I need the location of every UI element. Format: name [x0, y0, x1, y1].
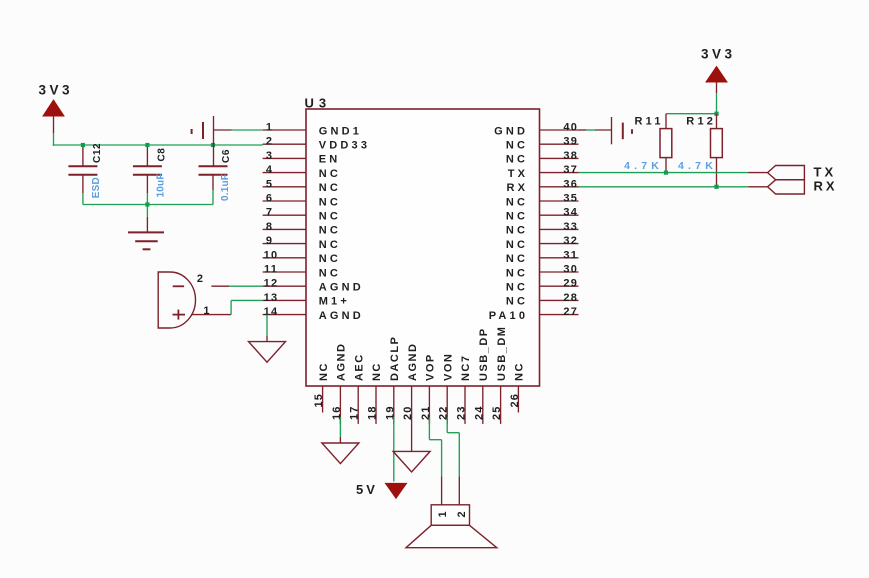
- svg-text:C6: C6: [221, 149, 232, 163]
- svg-text:24: 24: [473, 405, 485, 420]
- svg-text:1: 1: [266, 122, 273, 134]
- svg-text:6: 6: [266, 193, 273, 205]
- svg-text:USB_DM: USB_DM: [496, 326, 508, 381]
- svg-text:4: 4: [266, 164, 273, 176]
- svg-text:34: 34: [563, 207, 578, 219]
- svg-text:NC7: NC7: [460, 354, 472, 381]
- svg-text:NC: NC: [506, 140, 528, 152]
- svg-text:4.7K: 4.7K: [678, 160, 717, 172]
- svg-text:NC: NC: [506, 296, 528, 308]
- svg-text:22: 22: [438, 405, 450, 420]
- svg-text:C8: C8: [157, 148, 168, 162]
- svg-text:18: 18: [367, 405, 379, 420]
- svg-text:14: 14: [264, 306, 279, 318]
- svg-text:4.7K: 4.7K: [624, 160, 663, 172]
- svg-text:0.1uF: 0.1uF: [220, 174, 231, 201]
- svg-text:2: 2: [197, 273, 204, 285]
- svg-text:30: 30: [563, 264, 578, 276]
- svg-text:11: 11: [264, 264, 278, 276]
- svg-text:NC: NC: [319, 196, 341, 208]
- svg-text:NC: NC: [506, 154, 528, 166]
- svg-text:NC: NC: [506, 211, 528, 223]
- svg-text:M1+: M1+: [319, 296, 350, 308]
- svg-text:NC: NC: [506, 267, 528, 279]
- svg-text:28: 28: [563, 292, 578, 304]
- svg-text:PA10: PA10: [489, 310, 529, 322]
- svg-text:GND: GND: [494, 125, 528, 137]
- svg-text:3V3: 3V3: [39, 83, 74, 98]
- svg-text:TX: TX: [508, 168, 528, 180]
- svg-text:VOP: VOP: [425, 353, 437, 381]
- svg-text:23: 23: [456, 405, 468, 420]
- svg-text:19: 19: [384, 405, 396, 420]
- svg-text:25: 25: [491, 405, 503, 420]
- svg-text:DACLP: DACLP: [389, 336, 401, 381]
- svg-text:R12: R12: [686, 116, 716, 128]
- svg-text:NC: NC: [506, 196, 528, 208]
- svg-text:36: 36: [563, 178, 578, 190]
- svg-text:9: 9: [266, 235, 273, 247]
- svg-text:RX: RX: [814, 179, 838, 194]
- svg-text:10uF: 10uF: [156, 173, 167, 197]
- svg-text:NC: NC: [506, 253, 528, 265]
- svg-text:40: 40: [563, 122, 578, 134]
- svg-text:ESD: ESD: [91, 177, 102, 198]
- svg-text:NC: NC: [514, 362, 526, 381]
- svg-text:NC: NC: [319, 267, 341, 279]
- svg-text:NC: NC: [319, 225, 341, 237]
- svg-text:NC: NC: [319, 168, 341, 180]
- svg-text:32: 32: [563, 235, 578, 247]
- svg-text:39: 39: [563, 136, 578, 148]
- svg-text:RX: RX: [507, 182, 529, 194]
- svg-text:15: 15: [313, 393, 325, 408]
- svg-text:NC: NC: [371, 362, 383, 381]
- svg-text:EN: EN: [319, 154, 341, 166]
- svg-text:AEC: AEC: [353, 353, 365, 381]
- svg-text:NC: NC: [319, 182, 341, 194]
- svg-text:NC: NC: [506, 225, 528, 237]
- svg-text:1: 1: [437, 510, 449, 517]
- svg-text:26: 26: [509, 393, 521, 408]
- svg-text:5V: 5V: [356, 482, 378, 497]
- svg-text:GND1: GND1: [319, 125, 362, 137]
- svg-text:AGND: AGND: [336, 343, 348, 381]
- svg-text:TX: TX: [814, 164, 837, 179]
- svg-text:20: 20: [402, 405, 414, 420]
- svg-text:37: 37: [563, 164, 578, 176]
- svg-text:35: 35: [563, 193, 578, 205]
- svg-text:NC: NC: [319, 239, 341, 251]
- svg-text:31: 31: [563, 249, 578, 261]
- svg-text:7: 7: [266, 207, 273, 219]
- svg-text:38: 38: [563, 150, 578, 162]
- svg-text:AGND: AGND: [319, 310, 364, 322]
- svg-text:AGND: AGND: [407, 343, 419, 381]
- svg-text:C12: C12: [92, 143, 103, 163]
- svg-text:U3: U3: [305, 96, 332, 111]
- svg-text:NC: NC: [319, 253, 341, 265]
- svg-text:VDD33: VDD33: [319, 140, 370, 152]
- svg-text:33: 33: [563, 221, 578, 233]
- svg-text:NC: NC: [506, 282, 528, 294]
- svg-text:NC: NC: [318, 362, 330, 381]
- svg-text:10: 10: [264, 249, 279, 261]
- svg-text:16: 16: [331, 405, 343, 420]
- svg-text:21: 21: [420, 405, 432, 420]
- svg-text:NC: NC: [506, 239, 528, 251]
- svg-text:13: 13: [264, 292, 279, 304]
- svg-text:3: 3: [266, 150, 273, 162]
- svg-text:R11: R11: [635, 116, 664, 128]
- svg-text:27: 27: [563, 306, 578, 318]
- svg-text:12: 12: [264, 278, 279, 290]
- svg-text:2: 2: [266, 136, 273, 148]
- svg-text:5: 5: [266, 178, 273, 190]
- svg-text:2: 2: [456, 510, 468, 517]
- svg-text:AGND: AGND: [319, 282, 364, 294]
- svg-text:29: 29: [563, 278, 578, 290]
- svg-text:VON: VON: [442, 353, 454, 381]
- svg-text:8: 8: [266, 221, 273, 233]
- svg-text:17: 17: [349, 405, 361, 420]
- svg-text:3V3: 3V3: [701, 47, 736, 62]
- svg-text:USB_DP: USB_DP: [478, 327, 490, 381]
- svg-text:NC: NC: [319, 211, 341, 223]
